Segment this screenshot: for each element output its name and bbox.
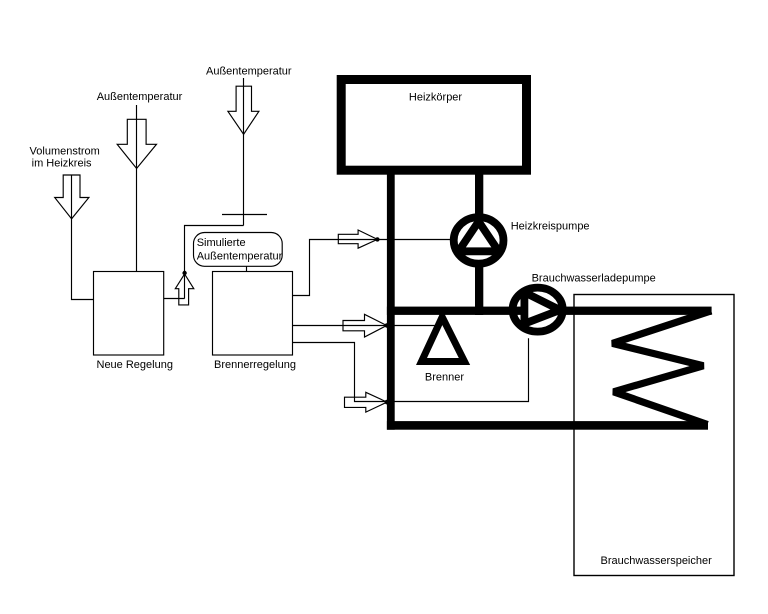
controller box Brennerregelung: [213, 272, 293, 356]
heat exchanger coil in storage tank: [612, 311, 711, 425]
svg-text:im Heizkreis: im Heizkreis: [32, 157, 92, 169]
svg-text:Brauchwasserladepumpe: Brauchwasserladepumpe: [532, 272, 656, 284]
svg-text:Simulierte: Simulierte: [197, 237, 246, 249]
wire from sensor down-left to junction above up-arrow: [185, 226, 244, 274]
wire Aussentemperatur top center line to sensor bar: [243, 78, 245, 226]
input arrow Aussentemperatur left (hollow down arrow): [117, 119, 156, 168]
wire rounded box to Brennerregelung top: [246, 266, 248, 271]
svg-text:Brenner: Brenner: [425, 371, 464, 383]
rounded box Simulierte Aussentemperatur: [194, 233, 283, 267]
svg-text:Heizkreispumpe: Heizkreispumpe: [511, 220, 590, 232]
wire Volumenstrom center line into Neue Regelung: [72, 175, 94, 300]
svg-text:Außentemperatur: Außentemperatur: [206, 65, 292, 77]
wire L1 Brennerregelung to Heizkreispumpe: [293, 240, 451, 296]
pump Brauchwasserladepumpe circle: [513, 288, 563, 332]
pump Heizkreispumpe circle: [454, 217, 504, 264]
svg-text:Außentemperatur: Außentemperatur: [97, 91, 183, 103]
signal arrow 2 (hollow right arrow): [343, 314, 387, 337]
wire L3 Brennerregelung to Brauchwasserladepumpe: [293, 338, 529, 401]
wire Neue Regelung right edge to up-arrow: [164, 298, 185, 300]
svg-text:Außentemperatur: Außentemperatur: [197, 251, 283, 263]
svg-text:Neue Regelung: Neue Regelung: [97, 359, 173, 371]
input arrow Aussentemperatur top (hollow down arrow): [228, 86, 259, 134]
junction dot arrow 1 tip: [375, 237, 379, 241]
svg-text:Heizkörper: Heizkörper: [409, 91, 463, 103]
wire up-arrow center line: [184, 273, 186, 299]
junction dot node A: [182, 271, 186, 275]
burner Brenner triangle: [422, 317, 465, 362]
arrow up from Neue Regelung output (hollow up arrow): [175, 274, 194, 305]
junction dot arrow 2 tip: [385, 323, 389, 327]
wire Aussentemperatur left center line into Neue Regelung: [136, 105, 138, 272]
pipe bottom return: [387, 421, 708, 430]
svg-text:Brauchwasserspeicher: Brauchwasserspeicher: [601, 555, 713, 567]
signal arrow 3 (hollow right arrow): [345, 392, 388, 412]
sensor bar (temperature probe): [222, 214, 267, 216]
pipe left vertical: [387, 170, 395, 430]
controller box Neue Regelung: [94, 272, 164, 356]
radiator Heizkoerper box: [341, 80, 526, 171]
pipe right vertical through Heizkreispumpe: [475, 170, 483, 241]
junction dot arrow 3 tip: [385, 400, 390, 405]
svg-text:Volumenstrom: Volumenstrom: [30, 145, 100, 157]
wire L2 Brennerregelung to Brenner: [293, 325, 435, 327]
signal arrow 1 (hollow right arrow): [338, 230, 377, 248]
input arrow Volumenstrom (hollow down arrow): [55, 175, 89, 219]
svg-text:Brennerregelung: Brennerregelung: [214, 359, 296, 371]
pump Brauchwasserladepumpe triangle: [524, 292, 560, 323]
pipe horizontal main: [387, 307, 712, 315]
label Volumenstrom im Heizkreis: [30, 145, 100, 169]
storage tank Brauchwasserspeicher box: [574, 295, 734, 576]
